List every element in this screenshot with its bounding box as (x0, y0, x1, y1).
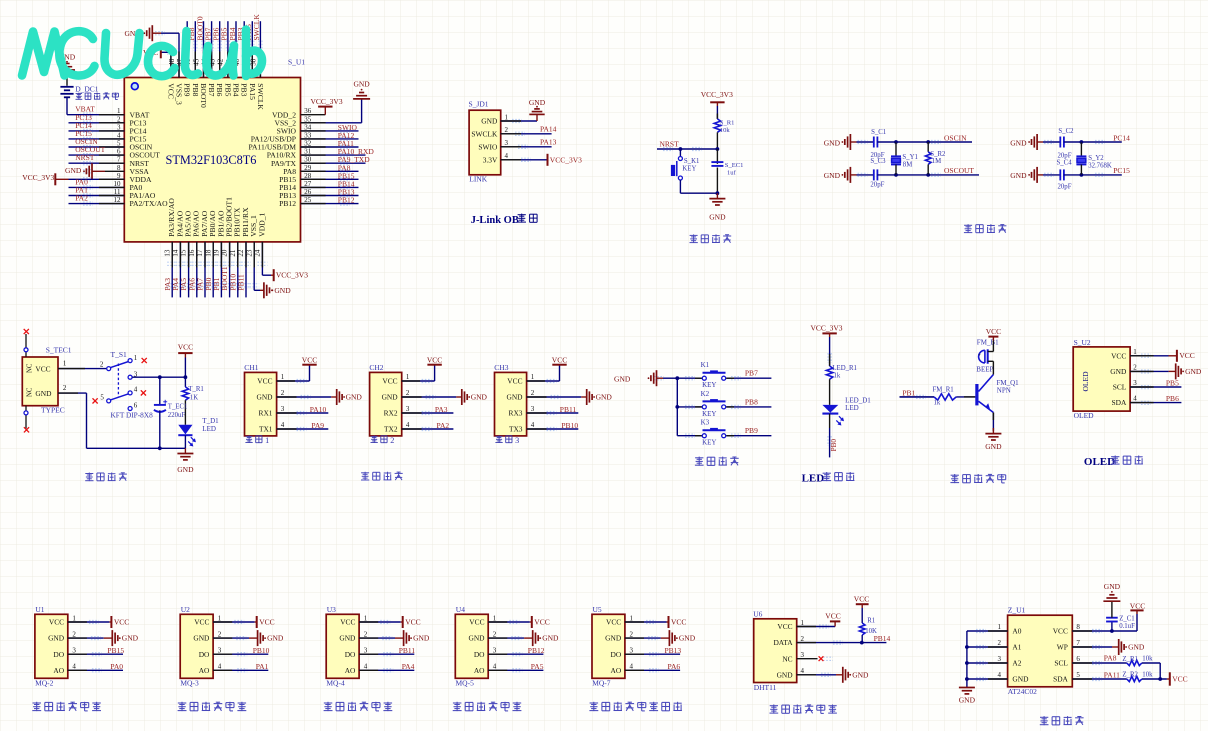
svg-text:PB12: PB12 (528, 646, 545, 655)
svg-text:U3: U3 (327, 605, 336, 614)
svg-text:1K: 1K (190, 394, 198, 401)
svg-text:NC: NC (27, 363, 34, 373)
svg-text:GND: GND (193, 634, 210, 643)
svg-text:4: 4 (1133, 395, 1137, 403)
svg-text:GND: GND (985, 442, 1002, 451)
svg-text:Z_R1: Z_R1 (1122, 656, 1137, 663)
svg-text:SWCLK: SWCLK (252, 14, 261, 41)
svg-text:19: 19 (213, 249, 221, 257)
svg-text:VCC: VCC (986, 327, 1001, 336)
svg-text:VCC: VCC (825, 611, 840, 620)
svg-text:1: 1 (630, 614, 634, 622)
svg-text:OSCOUT: OSCOUT (944, 166, 974, 175)
svg-text:GND: GND (256, 393, 273, 402)
svg-text:BEEP: BEEP (976, 366, 993, 374)
svg-text:10k: 10k (1142, 656, 1153, 663)
svg-text:CH1: CH1 (244, 363, 258, 372)
svg-text:GND: GND (346, 393, 363, 402)
svg-text:VCC: VCC (1111, 351, 1126, 360)
svg-text:A2: A2 (1012, 659, 1021, 668)
svg-text:PA3: PA3 (435, 405, 448, 414)
svg-text:Z_U1: Z_U1 (1008, 606, 1026, 615)
svg-text:GND: GND (506, 393, 523, 402)
svg-text:PA5: PA5 (531, 662, 544, 671)
svg-text:14: 14 (172, 249, 180, 257)
svg-text:GND: GND (959, 696, 976, 705)
svg-text:S_C1: S_C1 (871, 129, 886, 136)
svg-text:VCC: VCC (854, 594, 869, 603)
svg-text:GND: GND (339, 634, 356, 643)
svg-text:3: 3 (72, 647, 76, 655)
svg-text:PB5: PB5 (223, 83, 232, 96)
svg-text:PA9: PA9 (311, 421, 324, 430)
svg-text:VCC: VCC (405, 617, 420, 626)
svg-text:PB11: PB11 (560, 405, 577, 414)
svg-text:PB8: PB8 (745, 397, 758, 406)
svg-text:PA10: PA10 (310, 405, 327, 414)
svg-text:5: 5 (1076, 671, 1080, 679)
svg-text:VCC: VCC (302, 355, 317, 364)
svg-text:3: 3 (218, 647, 222, 655)
svg-text:PB11: PB11 (237, 274, 246, 291)
svg-text:2: 2 (801, 635, 805, 643)
svg-text:2: 2 (493, 630, 497, 638)
svg-text:PB6: PB6 (215, 83, 224, 96)
svg-text:VCC: VCC (259, 617, 274, 626)
svg-text:2: 2 (1133, 364, 1137, 372)
svg-text:GND: GND (65, 166, 82, 175)
svg-text:GND: GND (413, 634, 430, 643)
svg-text:PB12: PB12 (338, 196, 355, 205)
svg-text:1uf: 1uf (727, 170, 737, 177)
svg-text:SWCLK: SWCLK (256, 83, 265, 110)
svg-text:SWCLK: SWCLK (471, 129, 498, 138)
svg-text:2: 2 (505, 126, 509, 134)
svg-text:20pF: 20pF (870, 182, 884, 189)
svg-text:10K: 10K (865, 628, 877, 635)
svg-text:PC14: PC14 (1113, 133, 1130, 142)
svg-text:2: 2 (364, 630, 368, 638)
svg-text:PC15: PC15 (1113, 166, 1130, 175)
svg-text:MQ-5: MQ-5 (456, 678, 475, 687)
svg-text:OLED: OLED (1074, 411, 1095, 420)
svg-text:DO: DO (53, 650, 64, 659)
svg-text:S_EC1: S_EC1 (725, 162, 744, 169)
svg-text:GND: GND (481, 117, 498, 126)
svg-text:1: 1 (505, 113, 509, 121)
svg-text:K1: K1 (701, 361, 710, 369)
svg-text:NC: NC (27, 387, 34, 397)
svg-text:PA0: PA0 (110, 662, 123, 671)
svg-text:3: 3 (406, 405, 410, 413)
svg-text:OLED: OLED (1084, 456, 1115, 468)
svg-text:R1: R1 (867, 618, 875, 625)
svg-text:GND: GND (382, 393, 399, 402)
svg-text:4: 4 (406, 421, 410, 429)
svg-text:PA6: PA6 (668, 662, 681, 671)
svg-text:AO: AO (199, 666, 210, 675)
svg-text:AO: AO (611, 666, 622, 675)
svg-text:LED: LED (802, 472, 825, 484)
svg-text:SCL: SCL (1113, 383, 1127, 392)
svg-text:2: 2 (390, 436, 394, 445)
svg-text:VCC: VCC (606, 618, 621, 627)
svg-text:PB7: PB7 (207, 83, 216, 96)
svg-text:20: 20 (221, 249, 229, 257)
svg-text:MQ-7: MQ-7 (592, 678, 611, 687)
svg-text:U5: U5 (593, 605, 602, 614)
svg-text:GND: GND (824, 171, 841, 180)
svg-text:VCC: VCC (382, 377, 397, 386)
svg-text:AO: AO (345, 666, 356, 675)
svg-text:1: 1 (134, 354, 138, 362)
svg-text:6: 6 (134, 402, 138, 410)
svg-text:8M: 8M (903, 162, 912, 169)
svg-text:VCC: VCC (507, 377, 522, 386)
svg-text:PB15: PB15 (107, 646, 124, 655)
svg-text:MQ-2: MQ-2 (35, 678, 54, 687)
svg-text:1: 1 (63, 360, 67, 368)
svg-text:GND: GND (1185, 367, 1202, 376)
svg-text:GND: GND (267, 634, 284, 643)
svg-text:32.768K: 32.768K (1088, 163, 1112, 170)
svg-text:2: 2 (406, 389, 410, 397)
svg-text:1: 1 (801, 619, 805, 627)
svg-text:+: + (978, 352, 981, 358)
svg-text:VCC: VCC (671, 617, 686, 626)
svg-text:GND: GND (529, 98, 546, 107)
svg-text:VCC_3V3: VCC_3V3 (701, 90, 733, 99)
svg-text:S_JD1: S_JD1 (469, 100, 489, 109)
svg-text:PB1: PB1 (902, 388, 915, 397)
svg-text:VCC: VCC (1130, 601, 1145, 610)
svg-text:S_TEC1: S_TEC1 (46, 346, 72, 355)
svg-text:VCC: VCC (777, 622, 792, 631)
svg-text:PA1: PA1 (256, 662, 269, 671)
svg-text:VCC: VCC (1172, 674, 1187, 683)
svg-text:15: 15 (180, 249, 188, 257)
svg-text:VCC: VCC (1053, 627, 1068, 636)
svg-text:3: 3 (493, 647, 497, 655)
svg-text:S_C3: S_C3 (870, 158, 886, 165)
svg-text:SDA: SDA (1112, 398, 1127, 407)
svg-text:K2: K2 (701, 390, 710, 398)
svg-text:1: 1 (218, 614, 222, 622)
svg-text:2: 2 (630, 630, 634, 638)
svg-text:S_U1: S_U1 (288, 57, 305, 66)
svg-text:1: 1 (265, 436, 269, 445)
svg-text:3: 3 (801, 651, 805, 659)
svg-text:3: 3 (630, 647, 634, 655)
svg-text:LED_R1: LED_R1 (832, 365, 857, 372)
svg-text:2: 2 (72, 630, 76, 638)
svg-text:PA14: PA14 (540, 125, 557, 134)
svg-text:10k: 10k (720, 127, 731, 134)
svg-text:1: 1 (998, 623, 1002, 631)
svg-text:PA8: PA8 (1104, 654, 1117, 663)
svg-text:4: 4 (505, 152, 509, 160)
svg-text:PB6: PB6 (1166, 394, 1179, 403)
svg-text:PB3: PB3 (240, 83, 249, 96)
svg-text:VCC: VCC (194, 618, 209, 627)
svg-text:1k: 1k (834, 372, 841, 379)
svg-text:38: 38 (249, 58, 257, 66)
svg-text:4: 4 (218, 663, 222, 671)
svg-text:PB9: PB9 (745, 426, 758, 435)
svg-text:KEY: KEY (682, 165, 696, 172)
svg-text:4: 4 (134, 386, 138, 394)
svg-text:SWIO: SWIO (478, 142, 498, 151)
svg-text:PA13: PA13 (540, 138, 557, 147)
svg-text:GND: GND (614, 374, 631, 383)
svg-text:J-Link OB: J-Link OB (471, 215, 519, 226)
svg-text:S_Y1: S_Y1 (902, 154, 918, 161)
svg-text:PA2: PA2 (75, 194, 88, 203)
svg-text:3: 3 (505, 139, 509, 147)
svg-text:AO: AO (474, 666, 485, 675)
svg-text:KEY: KEY (702, 410, 716, 418)
svg-text:3: 3 (281, 405, 285, 413)
svg-text:23: 23 (245, 249, 253, 257)
svg-text:U2: U2 (181, 605, 190, 614)
svg-text:A0: A0 (1012, 627, 1021, 636)
svg-text:VCC: VCC (49, 618, 64, 627)
svg-text:4: 4 (801, 667, 805, 675)
svg-text:1k: 1k (934, 400, 941, 407)
svg-text:PB8: PB8 (191, 83, 200, 96)
svg-text:VDD_1: VDD_1 (257, 212, 266, 236)
svg-text:4: 4 (531, 421, 535, 429)
svg-text:2: 2 (63, 384, 67, 392)
svg-text:1: 1 (364, 614, 368, 622)
svg-text:1: 1 (281, 373, 285, 381)
svg-text:S_R1: S_R1 (720, 120, 735, 127)
svg-text:D_DC1: D_DC1 (75, 84, 99, 93)
svg-text:LINK: LINK (469, 174, 487, 183)
svg-text:PB10: PB10 (561, 421, 578, 430)
svg-text:VCC_3V3: VCC_3V3 (550, 156, 582, 165)
svg-text:16: 16 (188, 249, 196, 257)
svg-text:220uF: 220uF (168, 412, 186, 419)
svg-text:S_R2: S_R2 (930, 151, 946, 158)
svg-text:FM_R1: FM_R1 (933, 387, 954, 394)
svg-text:TYPEC: TYPEC (41, 406, 65, 415)
svg-text:PB0: PB0 (830, 439, 838, 452)
svg-text:DATA: DATA (773, 638, 793, 647)
svg-text:U6: U6 (753, 610, 762, 619)
svg-text:OLED: OLED (1081, 371, 1090, 392)
svg-text:4: 4 (281, 421, 285, 429)
svg-text:MQ-4: MQ-4 (326, 678, 345, 687)
svg-text:S_K1: S_K1 (684, 158, 700, 165)
svg-text:Z_C1: Z_C1 (1119, 616, 1134, 623)
svg-text:K3: K3 (701, 419, 710, 427)
svg-text:GND: GND (471, 393, 488, 402)
svg-text:OSCIN: OSCIN (944, 133, 967, 142)
svg-text:TX2: TX2 (384, 425, 398, 434)
svg-text:GND: GND (353, 79, 370, 88)
svg-text:GND: GND (542, 634, 559, 643)
svg-text:NRST: NRST (660, 140, 680, 149)
svg-text:S_U2: S_U2 (1074, 338, 1091, 347)
svg-text:3: 3 (998, 655, 1002, 663)
svg-text:SCL: SCL (1054, 659, 1068, 668)
svg-text:PA2/TX/AO: PA2/TX/AO (130, 199, 169, 208)
svg-text:PB12: PB12 (279, 199, 296, 208)
svg-text:PB11: PB11 (399, 646, 416, 655)
svg-text:7: 7 (1076, 639, 1080, 647)
svg-text:DO: DO (611, 650, 622, 659)
svg-text:KEY: KEY (702, 381, 716, 389)
svg-text:GND: GND (1010, 171, 1027, 180)
svg-text:GND: GND (122, 634, 139, 643)
svg-text:GND: GND (1012, 675, 1029, 684)
svg-text:VSS_3: VSS_3 (175, 83, 184, 105)
svg-text:8: 8 (1076, 623, 1080, 631)
svg-text:1: 1 (72, 614, 76, 622)
svg-text:2: 2 (218, 630, 222, 638)
svg-text:CH2: CH2 (369, 363, 383, 372)
svg-text:24: 24 (254, 249, 262, 257)
svg-text:DO: DO (345, 650, 356, 659)
svg-text:GND: GND (777, 670, 794, 679)
svg-text:18: 18 (204, 249, 212, 257)
svg-text:GND: GND (679, 634, 696, 643)
svg-text:S_C2: S_C2 (1058, 128, 1074, 135)
svg-text:3: 3 (364, 647, 368, 655)
svg-text:GND: GND (1110, 367, 1127, 376)
svg-text:1: 1 (531, 373, 535, 381)
svg-text:2: 2 (531, 389, 535, 397)
svg-text:PB10: PB10 (253, 646, 270, 655)
svg-text:GND: GND (274, 286, 291, 295)
svg-text:DO: DO (199, 650, 210, 659)
svg-text:45: 45 (192, 58, 200, 66)
svg-text:GND: GND (605, 634, 622, 643)
svg-text:BOOT0: BOOT0 (199, 83, 208, 108)
svg-text:VCC: VCC (534, 617, 549, 626)
svg-text:LED: LED (202, 425, 216, 433)
svg-text:1: 1 (1133, 348, 1137, 356)
svg-text:A1: A1 (1012, 643, 1021, 652)
svg-text:GND: GND (1010, 138, 1027, 147)
svg-text:GND: GND (596, 393, 613, 402)
svg-text:VCC: VCC (340, 618, 355, 627)
svg-text:PB4: PB4 (232, 83, 241, 96)
svg-text:LED: LED (845, 404, 859, 412)
svg-text:S_Y2: S_Y2 (1088, 155, 1104, 162)
svg-text:RX1: RX1 (259, 409, 273, 418)
svg-text:4: 4 (364, 663, 368, 671)
svg-text:VCC_3V3: VCC_3V3 (810, 324, 842, 333)
svg-text:VCC: VCC (114, 617, 129, 626)
svg-text:PB5: PB5 (1166, 378, 1179, 387)
svg-text:22: 22 (237, 249, 245, 257)
svg-text:PB14: PB14 (874, 634, 891, 643)
svg-text:GND: GND (852, 670, 869, 679)
svg-text:VCC: VCC (1179, 351, 1194, 360)
svg-text:GND: GND (177, 465, 194, 474)
svg-text:VCC: VCC (35, 365, 50, 374)
svg-text:Z_R2: Z_R2 (1122, 672, 1138, 679)
svg-text:PA11: PA11 (1104, 670, 1120, 679)
svg-text:GND: GND (48, 634, 65, 643)
svg-text:PB9: PB9 (183, 83, 192, 96)
svg-text:NC: NC (782, 654, 792, 663)
svg-text:GND: GND (468, 634, 485, 643)
svg-text:PB7: PB7 (745, 369, 758, 378)
svg-text:42: 42 (217, 58, 225, 66)
svg-text:TX1: TX1 (259, 425, 273, 434)
svg-text:SDA: SDA (1053, 675, 1068, 684)
svg-text:2: 2 (281, 389, 285, 397)
svg-text:AT24C02: AT24C02 (1008, 687, 1037, 696)
svg-text:2: 2 (998, 639, 1002, 647)
svg-text:VCC: VCC (427, 355, 442, 364)
svg-text:17: 17 (196, 249, 204, 257)
svg-text:3: 3 (1133, 379, 1137, 387)
svg-text:RX2: RX2 (384, 409, 398, 418)
svg-text:U1: U1 (35, 605, 44, 614)
svg-text:VCC_3V3: VCC_3V3 (276, 271, 308, 280)
svg-text:PB13: PB13 (665, 646, 682, 655)
svg-text:FM_B1: FM_B1 (977, 339, 999, 347)
svg-text:2: 2 (100, 360, 104, 368)
svg-text:GND: GND (1104, 582, 1121, 591)
svg-text:4: 4 (493, 663, 497, 671)
svg-text:VCC: VCC (469, 618, 484, 627)
svg-text:VCC_3V3: VCC_3V3 (311, 97, 343, 106)
svg-text:GND: GND (709, 213, 726, 222)
svg-text:4: 4 (998, 671, 1002, 679)
svg-text:1M: 1M (932, 158, 941, 165)
svg-text:DHT11: DHT11 (754, 683, 777, 692)
svg-text:S_C4: S_C4 (1057, 159, 1073, 166)
svg-text:TX3: TX3 (509, 425, 523, 434)
svg-text:GND: GND (1128, 643, 1145, 652)
svg-text:VCC: VCC (552, 355, 567, 364)
svg-text:5: 5 (100, 394, 104, 402)
svg-text:1: 1 (493, 614, 497, 622)
svg-text:RX3: RX3 (509, 409, 523, 418)
svg-text:NPN: NPN (997, 386, 1011, 394)
svg-text:1: 1 (406, 373, 410, 381)
svg-text:NRST: NRST (75, 153, 95, 162)
svg-text:GND: GND (35, 389, 52, 398)
svg-text:VCC: VCC (257, 377, 272, 386)
svg-text:T_R1: T_R1 (188, 386, 203, 393)
svg-text:VCC_3V3: VCC_3V3 (22, 173, 54, 182)
svg-text:3: 3 (531, 405, 535, 413)
svg-text:0.1uF: 0.1uF (1119, 623, 1135, 630)
svg-text:MQ-3: MQ-3 (180, 678, 199, 687)
svg-text:6: 6 (1076, 655, 1080, 663)
svg-text:KFT DIP-8X8: KFT DIP-8X8 (111, 410, 154, 419)
svg-text:21: 21 (229, 249, 237, 257)
svg-text:PA15: PA15 (248, 83, 257, 100)
svg-text:U4: U4 (456, 605, 465, 614)
svg-text:T_EC1: T_EC1 (168, 403, 188, 410)
svg-text:KEY: KEY (702, 439, 716, 447)
svg-text:DO: DO (474, 650, 485, 659)
svg-text:VCC: VCC (178, 342, 193, 351)
svg-text:4: 4 (72, 663, 76, 671)
svg-text:PA2: PA2 (437, 421, 450, 430)
svg-text:GND: GND (824, 138, 841, 147)
svg-text:3.3V: 3.3V (483, 155, 498, 164)
svg-text:STM32F103C8T6: STM32F103C8T6 (166, 153, 257, 167)
svg-text:T_S1: T_S1 (111, 350, 128, 359)
